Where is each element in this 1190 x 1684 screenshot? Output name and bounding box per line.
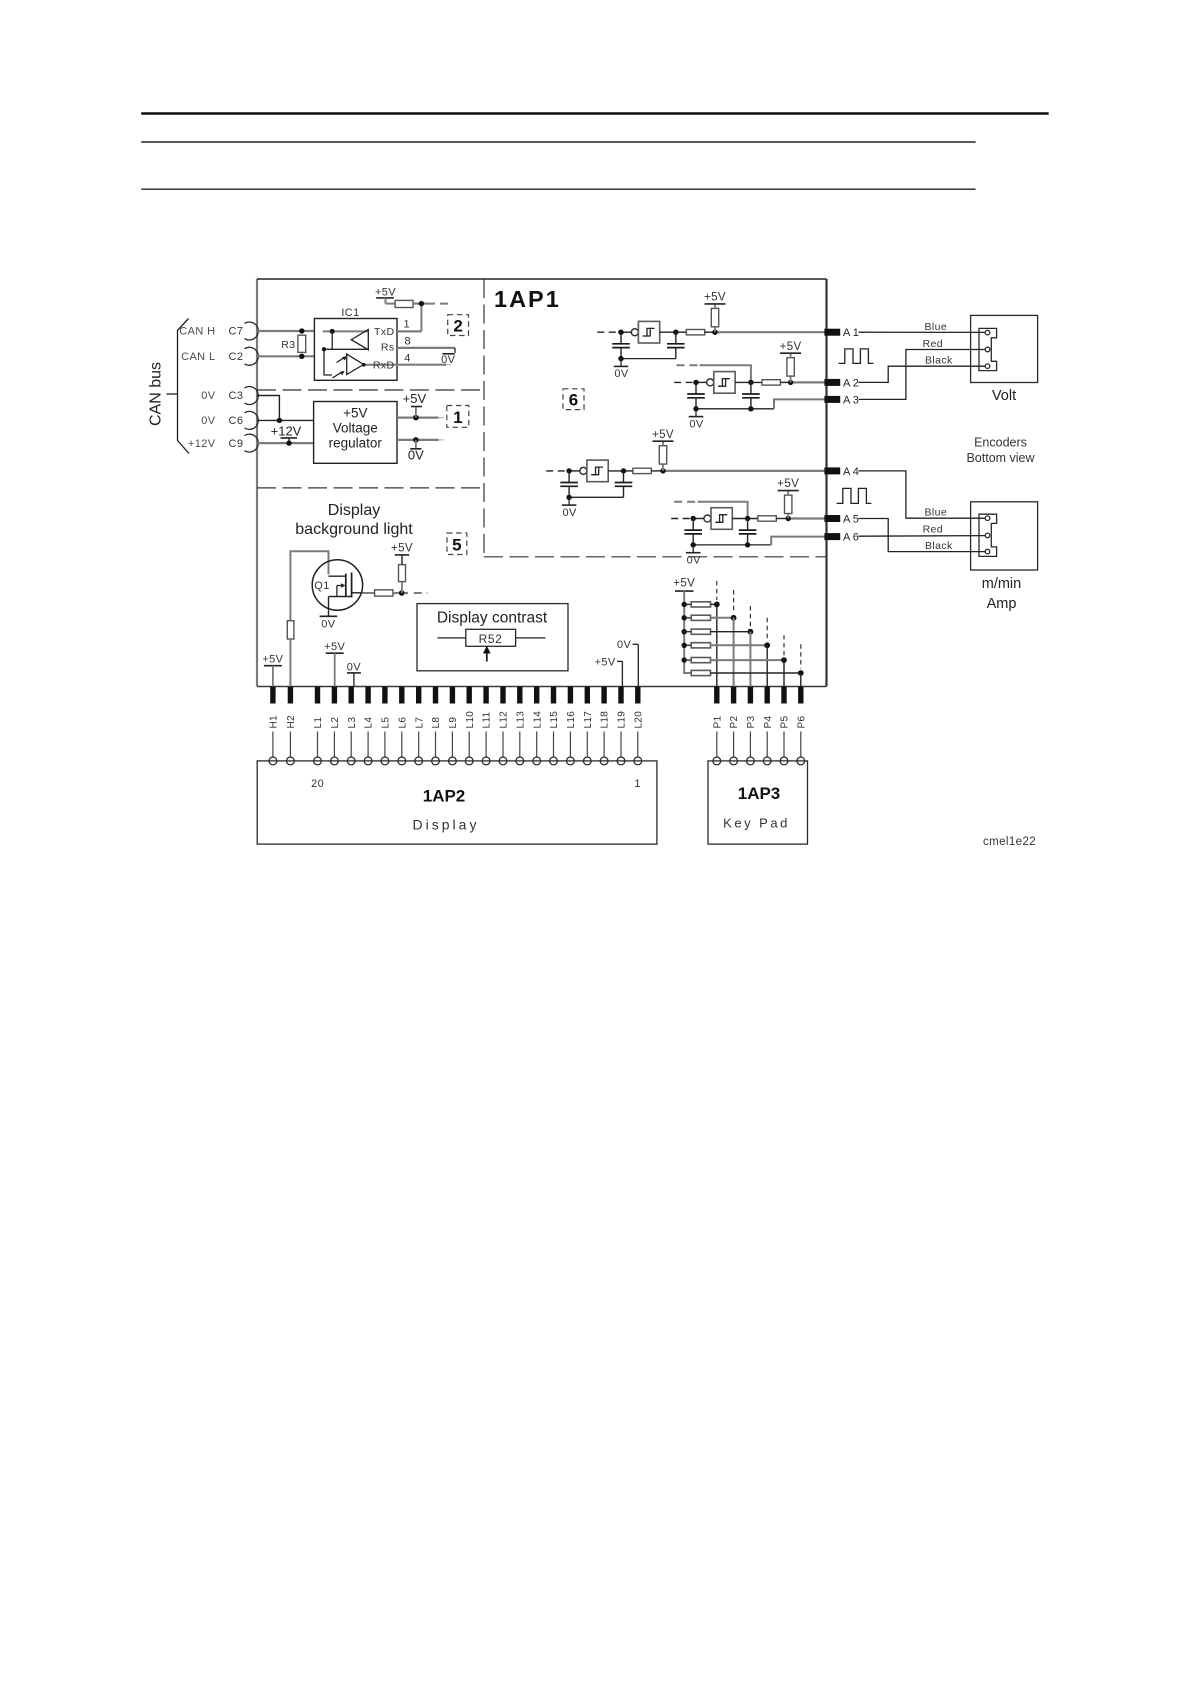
wire gate 2 input dashed xyxy=(674,381,694,383)
junction gate 1 ground xyxy=(618,356,623,361)
svg-text:regulator: regulator xyxy=(329,436,383,451)
svg-text:Bottom view: Bottom view xyxy=(966,451,1035,465)
gate U3 schmitt trigger xyxy=(580,460,608,482)
section divider vertical xyxy=(483,279,485,557)
wire gate 4 output xyxy=(732,518,758,520)
svg-text:A4: A4 xyxy=(843,466,861,478)
wire A3 step xyxy=(774,399,825,408)
label cmel1e22 xyxy=(983,836,1036,848)
svg-text:+5V: +5V xyxy=(324,641,345,653)
resistor keypad R2 xyxy=(691,615,710,620)
wire P4 dashed stub xyxy=(766,618,768,641)
svg-text:A2: A2 xyxy=(843,377,861,389)
wire gate 1 input dashed xyxy=(597,331,618,333)
connector pin C9 arc xyxy=(245,434,259,452)
capacitor gate 4 input xyxy=(684,519,702,545)
resistor keypad R1 xyxy=(691,602,710,607)
label Volt xyxy=(992,388,1016,404)
label A3 xyxy=(843,394,861,406)
svg-text:Amp: Amp xyxy=(987,596,1017,612)
svg-text:20: 20 xyxy=(311,778,324,790)
wire P2 dashed stub xyxy=(733,590,735,613)
svg-text:IC1: IC1 xyxy=(341,307,359,319)
svg-text:Q1: Q1 xyxy=(314,580,329,592)
svg-text:0V: 0V xyxy=(201,390,216,402)
svg-text:A3: A3 xyxy=(843,394,861,406)
encoder Amp connector outline xyxy=(979,514,997,556)
pin L5 xyxy=(381,687,392,765)
pin L9 xyxy=(448,687,459,765)
label Blue Amp xyxy=(924,506,947,518)
wire gate 2 top feed xyxy=(700,365,751,382)
svg-text:H2: H2 xyxy=(286,715,297,729)
junction gate 1 input xyxy=(618,330,623,335)
wire gate 4 top feed dashed xyxy=(674,501,698,503)
pin L11 xyxy=(482,687,493,765)
svg-text:+12V: +12V xyxy=(188,438,216,450)
wire P2 down to pin xyxy=(733,618,735,687)
resistor keypad R5 xyxy=(691,658,710,663)
svg-text:+5V: +5V xyxy=(652,429,674,441)
svg-text:+5V: +5V xyxy=(343,406,367,421)
junction 0V output xyxy=(413,437,419,443)
resistor backlight pull-up xyxy=(399,565,406,593)
svg-text:L16: L16 xyxy=(566,711,577,729)
section tag 1 xyxy=(447,406,469,428)
svg-text:4: 4 xyxy=(404,353,411,365)
wire P6 dashed stub xyxy=(800,644,802,668)
svg-text:L13: L13 xyxy=(515,711,526,729)
svg-text:R52: R52 xyxy=(479,632,503,646)
resistor gate 3 pull-up xyxy=(659,446,666,471)
encoder Amp pins xyxy=(985,516,990,554)
wire regulator 0V output xyxy=(397,439,444,441)
wire row 2 to P2 xyxy=(711,617,734,619)
pin L19 xyxy=(617,687,628,765)
ground 0V gate 4 xyxy=(686,545,701,567)
svg-text:L12: L12 xyxy=(499,711,510,729)
svg-text:L6: L6 xyxy=(397,717,408,729)
resistor Q1 drain series xyxy=(375,590,393,596)
encoder Amp box xyxy=(971,502,1038,570)
junction gate 4 ground xyxy=(691,542,696,547)
pin P1 xyxy=(712,687,723,765)
potentiometer R52 xyxy=(466,629,516,646)
pin H1 xyxy=(269,687,280,765)
wire Q1 drain xyxy=(362,592,374,594)
pin L8 xyxy=(431,687,442,765)
svg-text:L15: L15 xyxy=(549,711,560,729)
capacitor gate 4 output xyxy=(739,519,757,545)
wire drain resistor to node xyxy=(393,592,408,594)
wire A2 to Volt encoder black xyxy=(859,366,986,382)
svg-text:0V: 0V xyxy=(201,415,216,427)
wire gate 1 input xyxy=(618,331,631,333)
wire bus stub row 2 xyxy=(684,617,691,619)
svg-text:1: 1 xyxy=(634,778,641,790)
svg-text:Display: Display xyxy=(413,817,480,833)
svg-text:Encoders: Encoders xyxy=(974,436,1027,450)
junction P5 node xyxy=(781,657,787,663)
svg-text:P2: P2 xyxy=(729,716,740,729)
svg-text:+5V: +5V xyxy=(780,341,802,353)
svg-text:Black: Black xyxy=(925,355,953,367)
wire C9 +12V to regulator xyxy=(257,442,314,444)
junction P2 node xyxy=(731,615,737,621)
wire transceiver internal lower xyxy=(322,347,369,375)
gate U1 schmitt trigger xyxy=(631,321,659,343)
wire gate 2 ground bus xyxy=(696,408,774,410)
svg-text:A5: A5 xyxy=(843,514,861,526)
svg-text:Black: Black xyxy=(925,540,953,552)
module 1AP3 keypad box xyxy=(708,761,808,844)
svg-text:C9: C9 xyxy=(229,438,244,450)
svg-text:Display contrast: Display contrast xyxy=(437,610,548,627)
junction ladder bus row 1 xyxy=(682,602,687,607)
IC voltage regulator box xyxy=(314,402,397,464)
svg-text:0V: 0V xyxy=(408,448,424,463)
wire C2 CANL to IC1 xyxy=(257,355,314,357)
wire gate 3 input xyxy=(567,470,580,472)
junction P4 node xyxy=(764,642,770,648)
svg-text:L18: L18 xyxy=(600,711,611,729)
wire row 6 to P6 xyxy=(711,672,801,674)
wire gate 2 output xyxy=(735,381,762,383)
label 1 xyxy=(634,778,641,790)
wire R52 left xyxy=(438,637,466,639)
svg-text:0V: 0V xyxy=(687,555,702,567)
pin L1 xyxy=(313,687,324,765)
wire gate 4 ground bus xyxy=(693,544,771,546)
CAN bus bracket xyxy=(178,319,190,454)
pad output A5 xyxy=(824,515,840,522)
wire gate 3 output xyxy=(608,470,633,472)
label Display xyxy=(413,817,480,833)
svg-text:0V: 0V xyxy=(617,639,632,651)
ground 0V gate 1 xyxy=(614,359,629,381)
junction gate 3 pull-up xyxy=(660,468,665,473)
resistor gate 4 series xyxy=(758,516,776,521)
pin H2 xyxy=(286,687,297,765)
label 1AP1 xyxy=(494,286,561,312)
resistor gate 2 pull-up xyxy=(787,358,794,383)
svg-text:0V: 0V xyxy=(347,661,362,673)
capacitor gate 3 output xyxy=(615,471,633,497)
label m/min Amp xyxy=(982,576,1021,612)
resistor gate 3 series xyxy=(633,468,651,473)
capacitor gate 2 input xyxy=(687,382,705,408)
svg-text:P6: P6 xyxy=(796,716,807,729)
svg-text:P3: P3 xyxy=(746,716,757,729)
IC1 pin numbers xyxy=(404,319,412,365)
junction gate 2 pull-up xyxy=(788,380,793,385)
svg-text:cmel1e22: cmel1e22 xyxy=(983,836,1036,848)
ground 0V output symbol xyxy=(408,440,424,463)
svg-text:Blue: Blue xyxy=(924,506,947,518)
pad output A1 xyxy=(824,329,840,336)
wire regulator +5V output xyxy=(397,417,444,419)
resistor gate 2 series xyxy=(762,380,780,385)
ground 0V at Rs xyxy=(441,348,456,366)
encoder Volt connector outline xyxy=(979,328,997,370)
node C7 name labels xyxy=(179,326,243,338)
svg-text:+5V: +5V xyxy=(777,478,799,490)
svg-text:+5V: +5V xyxy=(403,391,427,406)
svg-text:Display: Display xyxy=(328,502,380,519)
svg-text:5: 5 xyxy=(452,535,461,554)
junction C2/R3 xyxy=(299,354,304,359)
power +5V gate 1 xyxy=(704,292,726,309)
svg-text:L3: L3 xyxy=(347,717,358,729)
svg-text:+5V: +5V xyxy=(704,292,726,304)
svg-text:Blue: Blue xyxy=(924,321,947,333)
pad output A2 xyxy=(824,379,840,386)
svg-text:0V: 0V xyxy=(562,507,577,519)
buffer triangle TxD xyxy=(351,330,368,350)
wire P6 down to pin xyxy=(800,673,802,687)
wire +5V ladder bus xyxy=(684,591,691,673)
gate U4 schmitt trigger xyxy=(704,508,732,530)
wire P5 down to pin xyxy=(783,660,785,686)
pin P5 xyxy=(780,687,791,765)
svg-text:L2: L2 xyxy=(330,717,341,729)
ground 0V gate 2 xyxy=(689,409,704,431)
label 1AP2 xyxy=(423,787,466,806)
ground 0V Q1 source xyxy=(320,610,338,630)
svg-text:A1: A1 xyxy=(843,327,861,339)
junction pull-up node xyxy=(419,301,424,306)
node C3 name labels xyxy=(201,390,243,402)
capacitor gate 1 input xyxy=(612,332,630,358)
power +5V test point L19 xyxy=(595,657,623,687)
svg-text:C2: C2 xyxy=(229,351,244,363)
junction gate 1 output xyxy=(673,330,678,335)
junction ladder bus row 5 xyxy=(682,657,687,662)
svg-text:CAN L: CAN L xyxy=(181,351,215,363)
wire Rs pin 8 to 0V xyxy=(397,347,455,349)
wire pull-up to node xyxy=(413,303,427,305)
capacitor gate 1 output xyxy=(667,332,685,358)
test point +12V xyxy=(271,424,302,446)
wire Q1 gate feed xyxy=(290,551,328,620)
section tag 6 xyxy=(563,389,584,410)
resistor keypad R6 xyxy=(691,670,710,675)
power +5V output symbol xyxy=(403,391,427,418)
svg-text:R3: R3 xyxy=(281,339,295,351)
junction gate 2 output cap to ground xyxy=(748,406,753,411)
pin L15 xyxy=(549,687,560,765)
label 1AP3 xyxy=(738,784,781,803)
svg-text:1: 1 xyxy=(404,319,411,331)
label CAN bus xyxy=(148,362,165,426)
wire gate 2 top feed dashed xyxy=(677,364,700,366)
wire A1 to Volt encoder blue xyxy=(859,331,986,333)
capacitor gate 2 output xyxy=(742,382,760,408)
svg-text:Key Pad: Key Pad xyxy=(723,816,790,831)
wire gate 3 input dashed xyxy=(546,470,566,472)
label A2 xyxy=(843,377,861,389)
label A5 xyxy=(843,514,861,526)
wire gate pulldown to H2 xyxy=(289,639,291,687)
module 1AP2 display box xyxy=(257,761,657,844)
wire TxD internal xyxy=(323,330,369,332)
pin L10 xyxy=(465,687,476,765)
power +5V test point L2 xyxy=(324,641,345,686)
wire P4 down to pin xyxy=(766,645,768,686)
svg-text:Red: Red xyxy=(923,524,943,536)
wire bus stub row 3 xyxy=(684,631,691,633)
svg-text:H1: H1 xyxy=(269,715,280,729)
svg-text:L7: L7 xyxy=(414,717,425,729)
display contrast box xyxy=(417,604,568,671)
section 6 bottom border xyxy=(484,556,827,558)
label Black Volt xyxy=(925,355,953,367)
svg-text:C7: C7 xyxy=(229,326,244,338)
svg-text:L17: L17 xyxy=(583,711,594,729)
wire gate 4 top feed xyxy=(698,502,748,519)
pin L18 xyxy=(600,687,611,765)
waveform between A1 and A2 xyxy=(839,349,874,364)
wire A5 to Amp encoder black xyxy=(859,519,986,552)
junction ladder bus row 2 xyxy=(682,615,687,620)
encoder Volt box xyxy=(971,315,1038,382)
svg-text:P1: P1 xyxy=(712,716,723,729)
svg-text:Volt: Volt xyxy=(992,388,1016,404)
resistor pull-up TxD xyxy=(395,300,413,307)
pin L20 xyxy=(633,687,644,765)
pin L13 xyxy=(515,687,526,765)
transistor Q1 xyxy=(312,560,362,610)
wire gate 3 ground bus xyxy=(569,496,623,498)
wire C7 CANH to IC1 xyxy=(257,330,314,332)
svg-text:2: 2 xyxy=(453,317,462,336)
wire gate 3 to output pin xyxy=(651,470,825,472)
connector pin C2 arc xyxy=(245,347,259,365)
label Red Volt xyxy=(923,338,943,350)
wire bus stub row 1 xyxy=(684,603,691,605)
svg-text:+5V: +5V xyxy=(262,654,283,666)
wire bus stub row 5 xyxy=(684,659,691,661)
power +5V gate 3 xyxy=(652,429,674,446)
svg-text:L4: L4 xyxy=(364,717,375,729)
junction ladder bus row 4 xyxy=(682,643,687,648)
svg-text:C3: C3 xyxy=(229,390,244,402)
svg-text:L20: L20 xyxy=(633,711,644,729)
label A1 xyxy=(843,327,861,339)
wire A6 step xyxy=(771,537,825,545)
svg-text:L11: L11 xyxy=(482,712,493,729)
junction backlight node xyxy=(399,590,405,596)
wire gate 1 ground bus xyxy=(621,358,676,360)
junction P1 node xyxy=(714,602,720,608)
header rule thick xyxy=(141,112,1048,114)
gate U2 schmitt trigger xyxy=(707,372,735,394)
wire row 5 to P5 xyxy=(711,659,785,661)
junction gate 4 input xyxy=(691,516,696,521)
wire gate 4 to output pin xyxy=(776,518,825,520)
node C2 name labels xyxy=(181,351,243,363)
power +5V pull-up xyxy=(375,286,396,303)
connector pin C7 arc xyxy=(245,322,259,340)
svg-text:L9: L9 xyxy=(448,717,459,729)
IC1 pin labels xyxy=(373,326,395,371)
svg-text:6: 6 xyxy=(569,391,578,410)
wire row 1 to P1 xyxy=(711,603,717,605)
section tag 5 xyxy=(447,533,467,555)
wire RxD pin 4 xyxy=(397,364,451,366)
label 20 xyxy=(311,778,324,790)
pin L7 xyxy=(414,687,425,765)
svg-text:+5V: +5V xyxy=(391,543,413,555)
junction P3 node xyxy=(748,629,754,635)
board 1AP1 outline xyxy=(257,279,827,687)
resistor Q1 gate pulldown xyxy=(287,621,294,639)
junction C3/C6 xyxy=(277,418,282,423)
svg-text:CAN bus: CAN bus xyxy=(148,362,165,426)
junction gate 2 ground xyxy=(693,406,698,411)
junction gate 2 input xyxy=(693,380,698,385)
power +5V test point H1 xyxy=(262,654,283,687)
svg-text:+5V: +5V xyxy=(673,578,695,590)
junction gate 3 output xyxy=(621,468,626,473)
svg-text:C6: C6 xyxy=(229,415,244,427)
junction ladder bus row 3 xyxy=(682,629,687,634)
pin L3 xyxy=(347,687,358,765)
node C9 name labels xyxy=(188,438,243,450)
pad output A4 xyxy=(824,467,840,474)
waveform between A4 and A5 xyxy=(837,488,872,503)
pin P2 xyxy=(729,687,740,765)
svg-text:RxD: RxD xyxy=(373,360,395,372)
svg-text:0V: 0V xyxy=(689,418,704,430)
label Encoders Bottom view xyxy=(966,436,1035,466)
wire A4 to Amp encoder blue xyxy=(859,471,986,518)
buffer triangle RxD xyxy=(347,354,364,374)
svg-text:L5: L5 xyxy=(381,717,392,729)
wire C3 0V xyxy=(257,396,279,421)
wire gate 1 output xyxy=(660,331,687,333)
svg-text:TxD: TxD xyxy=(374,326,394,338)
pin L4 xyxy=(364,687,375,765)
resistor gate 1 series xyxy=(686,330,704,335)
pin P4 xyxy=(763,687,774,765)
wire P1 dashed stub xyxy=(716,581,718,600)
svg-text:1AP1: 1AP1 xyxy=(494,286,561,312)
svg-text:m/min: m/min xyxy=(982,576,1021,592)
wire dashed backlight continuation xyxy=(414,592,428,594)
junction +5V output xyxy=(413,415,419,421)
section tag 2 xyxy=(448,315,469,336)
label A4 xyxy=(843,466,861,478)
wire P1 down to pin xyxy=(716,604,718,686)
junction gate 4 output cap to ground xyxy=(745,542,750,547)
svg-text:8: 8 xyxy=(405,336,412,348)
label Red Amp xyxy=(923,524,943,536)
header rule 2 xyxy=(141,141,975,143)
svg-text:L1: L1 xyxy=(313,717,324,729)
pad output A6 xyxy=(824,533,840,540)
header rule 3 xyxy=(141,188,975,190)
label Key Pad xyxy=(723,816,790,831)
wire gate 2 to output pin xyxy=(780,381,825,383)
section divider below 1 xyxy=(257,487,484,489)
resistor keypad R4 xyxy=(691,643,710,648)
power +5V gate 2 xyxy=(780,341,802,358)
svg-text:Red: Red xyxy=(923,338,943,350)
junction gate 1 pull-up xyxy=(712,330,717,335)
pin L12 xyxy=(499,687,510,765)
section divider between 2 and 1 xyxy=(257,389,484,391)
